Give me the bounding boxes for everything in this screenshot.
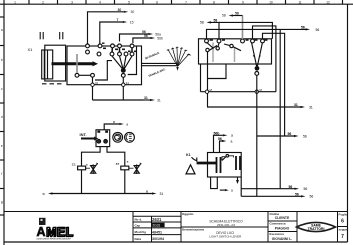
- svg-text:56: 56: [304, 187, 308, 191]
- wire: [200, 64, 202, 92]
- wire to starburst: [142, 62, 177, 64]
- top ruler numbers: [14, 0, 330, 4]
- svg-text:INT.: INT.: [80, 132, 87, 137]
- svg-text:2631-001--04: 2631-001--04: [217, 223, 235, 227]
- right side plumbing: [201, 22, 320, 198]
- svg-text:a: a: [1, 28, 3, 32]
- flasher input arrow: [81, 138, 94, 140]
- lamp resistor box L: [78, 166, 86, 170]
- hazard triangle: [186, 165, 195, 174]
- svg-text:9: 9: [242, 0, 244, 4]
- ground bus wire: [51, 193, 153, 195]
- top feed wires: [88, 8, 163, 44]
- lamp link dash L: [86, 167, 90, 169]
- svg-text:4: 4: [99, 0, 101, 4]
- svg-text:31: 31: [126, 81, 130, 85]
- svg-text:58: 58: [200, 21, 204, 25]
- wire: [122, 77, 124, 100]
- rotated harness label: [144, 51, 160, 61]
- svg-text:costruzioni elettromeccaniche: costruzioni elettromeccaniche: [37, 237, 72, 241]
- starburst down arrow: [176, 67, 178, 71]
- svg-text:7: 7: [117, 18, 119, 22]
- connector X1 body: [42, 50, 53, 79]
- wire: [79, 74, 91, 76]
- svg-text:57: 57: [116, 162, 120, 166]
- svg-text:5: 5: [128, 0, 130, 4]
- indicator gauge circle 2: [125, 132, 135, 142]
- wiper pivot dot S2: [255, 67, 259, 71]
- svg-text:58: 58: [214, 19, 218, 23]
- junction circle: [91, 83, 94, 86]
- wire W1 to arrow 56: [207, 29, 306, 39]
- title block texts: [135, 212, 348, 241]
- wire 56b: [133, 38, 151, 43]
- wire y107 to arrow: [207, 106, 301, 108]
- tiny labels: [72, 159, 129, 166]
- contact circles row: [205, 39, 209, 43]
- terminal marks: [210, 39, 268, 41]
- flasher contact circles: [97, 140, 101, 144]
- svg-text:Cap: Cap: [135, 224, 141, 228]
- wire corner x276: [253, 26, 276, 92]
- svg-text:Denominazione: Denominazione: [182, 228, 205, 232]
- svg-text:11: 11: [298, 0, 302, 4]
- svg-text:segue: segue: [339, 228, 348, 232]
- left ruler letters: [1, 28, 3, 204]
- wire to arrow 56b: [214, 135, 223, 152]
- svg-text:7: 7: [341, 234, 344, 240]
- small table rows: [133, 215, 181, 217]
- svg-text:58: 58: [235, 12, 239, 16]
- relay switch lever: [222, 157, 226, 161]
- node X1 label: [28, 47, 34, 52]
- svg-text:Commessa: Commessa: [270, 222, 286, 226]
- wire 30: [88, 12, 124, 44]
- wire y196.3 to arrow: [241, 195, 301, 197]
- arrow from relay: [220, 189, 225, 191]
- svg-text:31: 31: [144, 96, 148, 100]
- svg-text:e: e: [1, 144, 3, 148]
- K1 leader: [192, 157, 197, 160]
- svg-text:58: 58: [222, 14, 226, 18]
- svg-text:CLIENTE: CLIENTE: [275, 216, 290, 220]
- client eye logo: [297, 222, 336, 231]
- svg-text:31: 31: [309, 105, 313, 109]
- rotated harness label: [148, 67, 166, 78]
- lever into relay: [197, 162, 217, 165]
- svg-text:31: 31: [157, 99, 161, 103]
- svg-text:Foglio: Foglio: [339, 212, 348, 216]
- wire y136 to arrow: [257, 135, 294, 137]
- svg-text:6: 6: [341, 219, 344, 225]
- contact circle: [75, 73, 79, 77]
- wiper fan S2: [252, 42, 257, 67]
- svg-text:x: x: [113, 120, 115, 124]
- wire y188.7 to arrow: [241, 188, 294, 190]
- wire 56a: [120, 34, 149, 42]
- wire from S2 bottom: [207, 64, 226, 79]
- wiper contact circle S2: [255, 72, 259, 76]
- svg-text:56b: 56b: [157, 36, 163, 40]
- wire 58b arrow left: [211, 22, 219, 39]
- wires to ground: [81, 170, 83, 194]
- wire 58 arrow left: [233, 15, 243, 17]
- indicator lamp bowtie L: [91, 163, 98, 174]
- svg-text:56: 56: [310, 195, 314, 199]
- wire corner x272: [219, 22, 272, 38]
- middle divider: [181, 226, 268, 228]
- svg-text:Mod.Fig: Mod.Fig: [135, 230, 147, 234]
- flasher unit box: [96, 130, 110, 147]
- grey actuator wire: [242, 16, 244, 40]
- lever contact: [216, 47, 219, 50]
- wire grey actuator: [76, 54, 78, 73]
- svg-text:31: 31: [160, 192, 164, 196]
- lamp link dash R: [129, 167, 134, 169]
- starburst rays: [168, 47, 189, 67]
- INT label: [80, 132, 87, 137]
- svg-text:GIOVANNI L.: GIOVANNI L.: [272, 237, 293, 241]
- harness starburst: [142, 47, 191, 78]
- relay contact bars: [216, 157, 218, 173]
- svg-text:30: 30: [118, 8, 122, 12]
- wire: [92, 77, 94, 100]
- relay bottom bracket: [211, 177, 218, 189]
- inner step wire: [95, 61, 112, 80]
- grey actuator wire: [212, 43, 214, 63]
- ground wire 31: [93, 99, 144, 101]
- svg-text:6: 6: [156, 0, 158, 4]
- svg-text:2631: 2631: [152, 217, 162, 222]
- contact row 1 circles: [86, 44, 90, 48]
- wire to starburst: [142, 65, 177, 67]
- svg-text:f: f: [1, 172, 2, 176]
- svg-text:C1: C1: [72, 162, 76, 166]
- svg-text:b: b: [1, 58, 3, 62]
- svg-text:2G31: 2G31: [153, 223, 161, 227]
- ray arrowheads: [167, 47, 190, 55]
- svg-text:7: 7: [185, 0, 187, 4]
- wire to arrow: [220, 141, 223, 153]
- dividers: [132, 212, 134, 243]
- wire corner x280: [279, 29, 281, 188]
- svg-text:......: ......: [264, 89, 269, 93]
- border frame right: [347, 4, 349, 242]
- wire up with arrow: [104, 124, 119, 130]
- svg-text:56: 56: [289, 185, 293, 189]
- border frame left: [3, 0, 5, 245]
- svg-text:a: a: [231, 188, 233, 192]
- indicator gauge circle 1: [113, 132, 123, 142]
- svg-text:g: g: [1, 200, 3, 204]
- svg-text:a: a: [126, 122, 128, 126]
- switch S2 enclosure: [199, 39, 272, 64]
- switch housing: [45, 45, 66, 81]
- svg-text:56: 56: [301, 26, 305, 30]
- stub wires between rows: [112, 48, 132, 52]
- svg-text:LIGHT SWITCH LEVER: LIGHT SWITCH LEVER: [209, 234, 242, 238]
- grey actuator wire: [234, 47, 236, 62]
- svg-text:PIAGGIO: PIAGGIO: [275, 227, 290, 231]
- svg-text:56: 56: [218, 137, 222, 141]
- wire corner x284.6: [263, 33, 285, 136]
- wire y92: [201, 91, 276, 93]
- junction circle: [205, 90, 208, 93]
- svg-text:3: 3: [71, 0, 73, 4]
- svg-text:Data: Data: [135, 237, 142, 241]
- svg-text:12: 12: [326, 0, 330, 4]
- svg-text:31: 31: [294, 103, 298, 107]
- lever contact: [207, 42, 214, 48]
- relay K1 box: [208, 153, 242, 178]
- svg-text:x: x: [146, 190, 148, 194]
- svg-text:3/01/94: 3/01/94: [152, 237, 164, 241]
- svg-text:No d.: No d.: [135, 218, 143, 222]
- svg-text:d: d: [1, 115, 3, 119]
- junction circle: [122, 83, 125, 86]
- indicator lamp bowtie R: [134, 163, 141, 174]
- svg-text:56: 56: [288, 132, 292, 136]
- connector dashed bottom: [42, 83, 64, 85]
- relay down arrow: [237, 177, 239, 180]
- svg-text:56: 56: [295, 193, 299, 197]
- wire 15: [100, 22, 123, 44]
- junction labels: [95, 81, 129, 85]
- relay inner wires: [222, 157, 225, 161]
- inner step wire right: [128, 46, 137, 75]
- svg-text:56b: 56b: [214, 132, 220, 136]
- junction circle: [255, 90, 258, 93]
- svg-text:K1: K1: [186, 153, 191, 157]
- svg-text:X1: X1: [28, 47, 34, 52]
- lever mechanical link: [52, 62, 93, 65]
- contact circle: [91, 73, 95, 77]
- svg-text:48451: 48451: [152, 231, 162, 235]
- svg-text:15: 15: [130, 20, 134, 24]
- svg-text:MEL: MEL: [47, 225, 74, 239]
- svg-text:56: 56: [316, 28, 320, 32]
- wiper fan: [112, 56, 123, 70]
- company logo: [37, 218, 75, 241]
- wires down from flasher: [82, 147, 101, 167]
- svg-text:31: 31: [95, 81, 99, 85]
- top ruler ticks: [29, 0, 343, 4]
- svg-text:56: 56: [144, 34, 148, 38]
- K1 label: [186, 153, 191, 157]
- wiper contact circle: [121, 74, 125, 78]
- wiper pivot dot: [121, 69, 125, 73]
- title block top line: [4, 211, 348, 213]
- lamp resistor box R: [121, 166, 129, 170]
- svg-text:8: 8: [213, 0, 215, 4]
- svg-text:Esecutore: Esecutore: [270, 232, 285, 236]
- svg-text:1: 1: [14, 0, 16, 4]
- long vertical from S2 wiper: [256, 75, 258, 196]
- switch S1 enclosure: [67, 46, 142, 85]
- svg-text:10: 10: [269, 0, 273, 4]
- contact row 2 circles: [97, 52, 101, 56]
- terminal marks: [102, 43, 137, 53]
- svg-text:30: 30: [131, 10, 135, 14]
- relay right bracket: [240, 177, 242, 196]
- connector coupling dashes: [40, 32, 63, 39]
- svg-text:a: a: [231, 139, 233, 143]
- svg-text:TRATTORI: TRATTORI: [308, 227, 325, 231]
- border frame top: [0, 3, 353, 5]
- svg-text:56: 56: [303, 134, 307, 138]
- svg-text:Oggetto: Oggetto: [182, 212, 194, 216]
- terminals: [97, 131, 108, 133]
- svg-text:2: 2: [42, 0, 44, 4]
- left ruler ticks: [0, 17, 4, 215]
- svg-text:a: a: [231, 134, 233, 138]
- border frame bottom: [4, 241, 348, 243]
- right column rows: [268, 220, 297, 222]
